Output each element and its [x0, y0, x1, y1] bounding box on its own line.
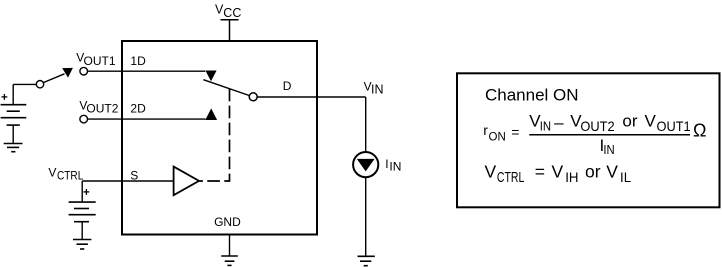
svg-text:D: D	[283, 79, 292, 93]
svg-text:S: S	[130, 168, 138, 182]
svg-text:IN: IN	[389, 159, 401, 173]
svg-text:or: or	[585, 161, 601, 181]
svg-text:V: V	[606, 161, 618, 181]
svg-text:or: or	[622, 112, 637, 131]
svg-text:Channel ON: Channel ON	[485, 86, 579, 105]
svg-text:OUT2: OUT2	[86, 102, 118, 116]
svg-text:IH: IH	[565, 170, 578, 185]
svg-text:Ω: Ω	[693, 121, 706, 141]
svg-text:2D: 2D	[130, 102, 146, 116]
svg-text:CTRL: CTRL	[57, 170, 83, 183]
svg-text:OUT2: OUT2	[580, 118, 614, 133]
svg-text:–: –	[554, 113, 564, 132]
svg-text:IN: IN	[540, 119, 551, 134]
svg-text:IN: IN	[371, 83, 384, 97]
svg-text:V: V	[485, 161, 497, 181]
svg-text:OUT1: OUT1	[657, 118, 691, 133]
svg-text:=: =	[535, 161, 545, 181]
svg-text:V: V	[552, 161, 564, 181]
svg-text:CTRL: CTRL	[497, 168, 524, 185]
svg-text:1D: 1D	[130, 54, 146, 68]
svg-text:IN: IN	[603, 142, 614, 157]
svg-text:OUT1: OUT1	[84, 54, 116, 68]
svg-text:r: r	[483, 122, 488, 138]
svg-text:IL: IL	[620, 170, 631, 185]
svg-text:V: V	[48, 166, 56, 180]
svg-text:V: V	[645, 112, 657, 131]
svg-text:ON: ON	[489, 132, 506, 144]
svg-text:I: I	[385, 157, 388, 171]
svg-text:=: =	[511, 124, 519, 140]
svg-text:GND: GND	[214, 215, 241, 229]
svg-text:CC: CC	[223, 6, 241, 20]
